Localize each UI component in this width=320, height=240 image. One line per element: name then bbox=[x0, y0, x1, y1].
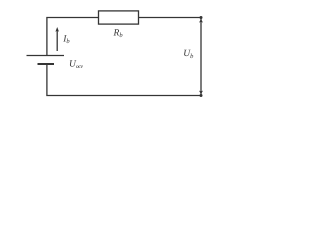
wire resistor to top-right node bbox=[139, 17, 202, 19]
current arrow Ib head bbox=[55, 27, 59, 32]
Ub arrow head up bbox=[199, 19, 203, 23]
battery negative plate (short, thick) bbox=[38, 63, 55, 65]
battery positive plate (long) bbox=[27, 55, 65, 57]
resistor Rb body bbox=[99, 11, 139, 24]
svg-text:Ib: Ib bbox=[62, 34, 70, 45]
wire top-left horizontal bbox=[47, 18, 99, 56]
node bottom-right bbox=[200, 94, 203, 97]
wire right vertical (U_b measurement line) bbox=[200, 18, 202, 96]
svg-text:Rb: Rb bbox=[113, 29, 124, 40]
svg-text:Uocv: Uocv bbox=[69, 60, 84, 70]
wire battery bottom to bottom-left corner bbox=[47, 64, 201, 96]
node top-right bbox=[200, 16, 203, 19]
svg-text:Ub: Ub bbox=[183, 49, 194, 60]
Ub arrow head down bbox=[199, 91, 203, 95]
current arrow Ib shaft bbox=[56, 31, 58, 52]
